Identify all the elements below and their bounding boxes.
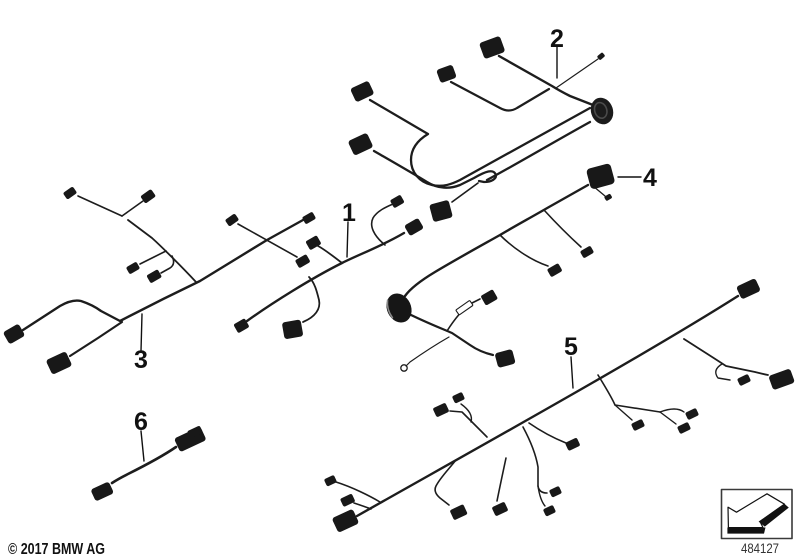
connector D	[348, 133, 374, 156]
connector B	[436, 64, 457, 83]
S-branch to tiny connector	[372, 204, 393, 245]
connector 692,414	[685, 408, 699, 420]
wire from connector 3b	[70, 322, 122, 356]
svg-text:2: 2	[550, 25, 564, 53]
branch to connector 572,445	[529, 423, 566, 443]
ring terminal	[401, 365, 407, 371]
trunk	[23, 220, 303, 330]
connector left end (harness 1)	[233, 318, 249, 333]
wire from connector D to hairpin hook	[374, 151, 496, 188]
connector C	[350, 80, 374, 102]
branch with tape to connector 489,297	[447, 299, 480, 331]
branch to connector at 313,243	[318, 246, 342, 263]
grommet (harness 2)	[587, 95, 616, 127]
label 5 pointer line	[571, 357, 573, 388]
S-wire to cube connector	[303, 277, 319, 322]
wire from connector B joining trunk	[451, 82, 549, 111]
connector 347,500	[340, 493, 356, 507]
right branch Y to big connector	[684, 339, 768, 375]
svg-text:3: 3	[134, 346, 148, 374]
connector 684,428	[677, 422, 691, 434]
title block box	[722, 490, 793, 539]
connector 3a	[3, 323, 26, 344]
lower stem to connector 458,512	[435, 460, 456, 505]
loop branch to connector 133,268	[140, 251, 166, 264]
trunk	[247, 233, 404, 321]
page-turn arrow white face	[728, 494, 785, 528]
crossing branch bottom connector 302,261	[295, 254, 311, 268]
connector 154,277	[146, 269, 162, 283]
right end connector (harness 5)	[736, 278, 761, 300]
big connector (harness 6)	[174, 426, 207, 452]
page-turn arrow black bar	[727, 528, 765, 534]
branch wire to tiny connector 70,193	[78, 196, 122, 216]
wire from connector C with pigtail loop, to grommet	[370, 100, 590, 186]
tiny connector 458,398	[452, 392, 465, 404]
tiny pin connector	[597, 52, 606, 60]
right lower branch	[598, 375, 660, 412]
connector 330,481	[324, 475, 337, 487]
label 1 pointer line	[347, 222, 348, 257]
cube connector (harness 1)	[282, 319, 304, 339]
connector 148,197	[140, 189, 156, 204]
wire grommet to big connector 505,358	[407, 313, 493, 355]
tape label on wire	[456, 300, 473, 315]
trunk from connector to grommet	[405, 185, 588, 296]
left lower wires	[336, 482, 380, 502]
connector 441,410	[433, 403, 450, 418]
wire from connector A to grommet	[499, 56, 593, 105]
small connector (harness 6)	[90, 481, 114, 501]
connector A	[479, 36, 505, 59]
svg-text:6: 6	[134, 408, 148, 436]
upper stem left	[450, 411, 487, 437]
trunk end connector 309,218	[302, 212, 316, 225]
branch connector 313,243	[305, 235, 321, 250]
connector 500,509	[492, 502, 509, 517]
tiny connector 555,492	[549, 486, 562, 498]
branch to connector 587,252	[544, 210, 581, 247]
lower stem to connector 499,502	[497, 458, 506, 501]
crossing branch top connector 232,220	[225, 213, 239, 226]
label 4 pointer line	[618, 176, 641, 178]
svg-text:484127: 484127	[741, 541, 779, 556]
thin wire to ring terminal	[406, 337, 449, 366]
loop branch to connector 154,277	[161, 256, 174, 273]
connector 3b	[46, 351, 73, 375]
grommet (harness 4)	[382, 289, 416, 326]
pin wire	[593, 186, 605, 196]
tiny connector 549,511	[543, 505, 556, 517]
branch connector 555,271	[547, 263, 563, 277]
trunk	[357, 296, 738, 516]
page-turn arrow black band	[759, 504, 789, 527]
thin antenna wire to pin	[556, 59, 598, 88]
lower stem to connectors 555,492 / 549,511	[523, 427, 547, 493]
svg-text:4: 4	[643, 164, 657, 192]
neck of cube connector E	[452, 183, 478, 202]
cable	[112, 447, 176, 483]
branch wire to connector 148,197	[122, 201, 143, 216]
tiny connector 70,193	[63, 186, 77, 199]
crossing branch wire	[238, 224, 297, 257]
big low connector 505,358	[494, 349, 515, 368]
connector 744,380	[737, 374, 751, 386]
connector 133,268	[126, 262, 140, 275]
svg-text:1: 1	[342, 199, 356, 227]
right end connector 414,227	[404, 218, 424, 236]
connector 638,425	[631, 419, 645, 431]
tiny connector 397,201	[390, 195, 405, 209]
label 2 pointer line	[556, 47, 558, 78]
connector 458,512	[450, 504, 468, 520]
label 3 pointer line	[141, 314, 142, 351]
connector 572,445	[565, 437, 581, 451]
bundle return wire to grommet	[487, 122, 590, 180]
big right connector 781,379	[768, 368, 795, 390]
svg-text:© 2017 BMW AG: © 2017 BMW AG	[8, 541, 105, 558]
branch connector 587,252	[580, 246, 594, 259]
branch to connector 555,271	[500, 235, 548, 266]
main connector (harness 4)	[586, 163, 616, 190]
left end connector (harness 5)	[332, 509, 360, 533]
svg-text:5: 5	[564, 333, 578, 361]
pin connector	[604, 193, 613, 201]
branch stem up-left	[128, 220, 196, 282]
label 6 pointer line	[141, 431, 144, 461]
connector 489,297	[480, 289, 498, 306]
wire to tiny connector 458,398	[461, 404, 471, 422]
cube connector E	[429, 200, 453, 223]
